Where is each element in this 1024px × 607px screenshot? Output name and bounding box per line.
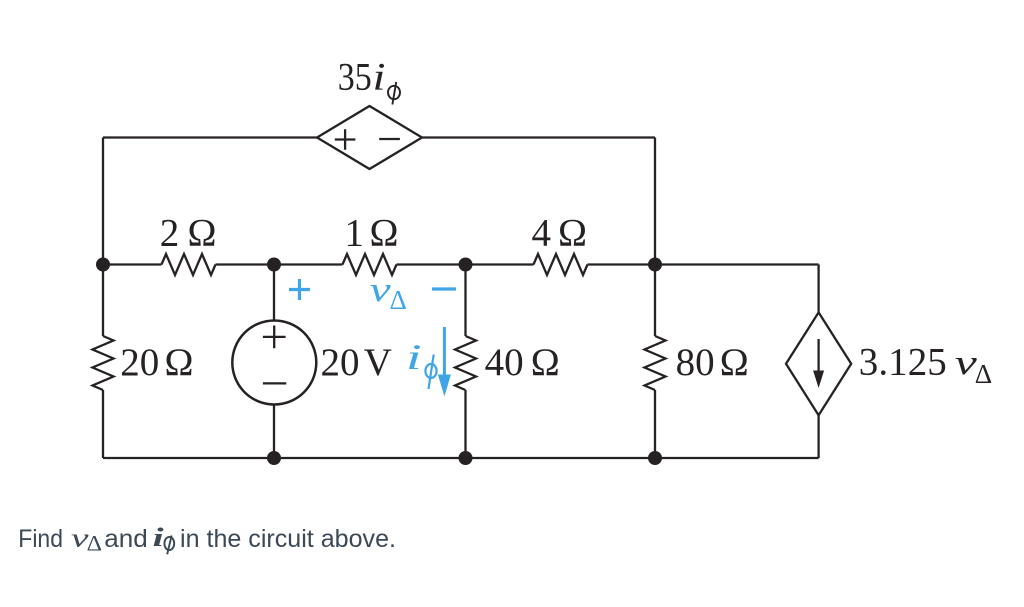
svg-text:v: v	[370, 270, 392, 309]
wire 20V branch upper lead	[273, 265, 275, 321]
svg-text:1: 1	[345, 212, 365, 255]
svg-text:Δ: Δ	[390, 285, 407, 315]
svg-text:Ω: Ω	[370, 212, 399, 255]
blue label phi subscript of iphi	[425, 355, 436, 390]
label phi subscript of 35iphi	[388, 82, 400, 105]
resistor R4 20ohm zigzag	[93, 336, 114, 390]
blue current arrow iphi	[443, 327, 446, 376]
wire top-right horizontal	[422, 136, 655, 138]
svg-text:Δ: Δ	[975, 359, 992, 389]
svg-text:3.125: 3.125	[859, 341, 947, 384]
svg-text:4: 4	[532, 212, 552, 255]
wire right drop from top loop	[654, 138, 656, 265]
wire 40ohm branch lower lead	[464, 390, 466, 458]
resistor R1 2ohm zigzag	[162, 254, 216, 275]
resistor R5 40ohm zigzag	[455, 336, 476, 390]
main wire segments	[103, 263, 162, 265]
dependent voltage source 35iphi (diamond)	[317, 106, 422, 169]
wire 20V branch lower lead	[273, 405, 275, 459]
node d	[648, 258, 662, 272]
svg-text:i: i	[153, 523, 165, 552]
svg-text:i: i	[373, 56, 386, 99]
node b	[267, 258, 281, 272]
voltage source V1 20V circle	[232, 321, 316, 405]
wire 40ohm branch upper lead	[464, 265, 466, 337]
svg-text:40: 40	[485, 341, 524, 384]
bottom wire	[103, 457, 819, 459]
wire right branch upper lead	[817, 265, 819, 313]
arrow inside current source	[817, 339, 819, 372]
polarity plus inside source	[263, 326, 286, 349]
node a	[96, 258, 110, 272]
blue polarity plus annotation	[289, 279, 310, 300]
svg-text:V: V	[364, 341, 392, 384]
wire 80ohm branch upper lead	[654, 265, 656, 337]
svg-text:Ω: Ω	[188, 212, 217, 255]
svg-text:35: 35	[338, 56, 372, 99]
node c	[459, 258, 473, 272]
svg-text:Ω: Ω	[531, 341, 560, 384]
resistor R6 80ohm zigzag	[645, 336, 666, 390]
wire left vertical upper	[102, 138, 104, 265]
svg-text:20: 20	[321, 341, 360, 384]
svg-text:Ω: Ω	[165, 341, 194, 384]
svg-text:2: 2	[160, 212, 180, 255]
blue polarity minus annotation	[432, 287, 456, 290]
wire left branch upper lead	[102, 265, 104, 337]
wire 80ohm branch lower lead	[654, 390, 656, 458]
node g bottom	[648, 451, 662, 465]
svg-text:in the circuit above.: in the circuit above.	[180, 525, 396, 553]
svg-text:Find: Find	[18, 525, 63, 553]
resistor R3 4ohm zigzag	[534, 254, 588, 275]
svg-text:Ω: Ω	[558, 212, 587, 255]
dependent current source 3.125v-delta (diamond)	[786, 312, 851, 415]
svg-text:80: 80	[676, 341, 715, 384]
svg-text:20: 20	[120, 341, 159, 384]
svg-text:and: and	[104, 525, 148, 553]
polarity minus inside diamond	[379, 138, 400, 140]
svg-text:Δ: Δ	[87, 531, 103, 556]
wire left branch lower lead	[102, 390, 104, 458]
svg-text:i: i	[406, 337, 422, 377]
wire top-left horizontal	[103, 136, 317, 138]
polarity plus inside diamond	[335, 129, 356, 150]
wire right branch lower lead	[817, 415, 819, 458]
polarity minus inside source	[263, 382, 286, 384]
resistor R2 1ohm zigzag	[343, 254, 397, 275]
node f bottom	[459, 451, 473, 465]
svg-text:Ω: Ω	[720, 341, 749, 384]
node e bottom	[267, 451, 281, 465]
